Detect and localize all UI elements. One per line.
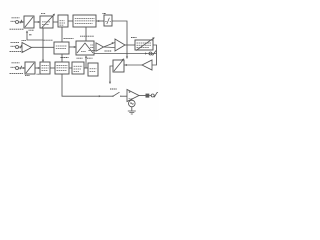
terminal out — [151, 94, 154, 97]
wire A2 to G — [32, 46, 55, 48]
label MOD above T3 — [12, 62, 20, 64]
variable attenuator (box with arrow) — [113, 60, 124, 72]
label under G — [61, 57, 69, 59]
text bars inside blocks — [42, 18, 152, 71]
label above switch — [110, 88, 117, 90]
numeral near L-wire — [29, 34, 32, 36]
wire AC source to ground — [131, 107, 133, 111]
label right of D vertical — [80, 35, 94, 37]
tiny illegible labels as bars — [10, 14, 137, 90]
block L — [88, 63, 98, 76]
box K content — [74, 66, 83, 71]
wire E right then down — [112, 21, 127, 59]
wire B to C — [53, 21, 58, 23]
wire T1 to filter — [19, 20, 25, 24]
wire A4 to variable attenuator — [124, 64, 142, 66]
label right of C vertical — [64, 37, 74, 39]
wire J to K — [69, 67, 72, 69]
wire C to D — [68, 20, 73, 22]
label (GHz) below T1 — [10, 28, 25, 30]
wire I to J — [50, 67, 55, 69]
bottom long wire — [62, 74, 113, 96]
AGC block F — [135, 40, 153, 50]
wire K to L with tap — [84, 67, 88, 69]
op-amp U2 — [127, 90, 139, 102]
terminal on H1 — [149, 52, 152, 55]
numeral above box B — [41, 13, 45, 15]
numeral under box H — [37, 73, 41, 75]
box D text rows — [75, 18, 95, 23]
label f1 near H1 — [105, 50, 112, 52]
mixer C — [58, 15, 68, 27]
glyph f/2 in box E — [105, 18, 111, 24]
block J — [55, 62, 69, 74]
right vertical to buffer — [152, 53, 157, 65]
amplifier A3 — [96, 43, 104, 51]
L wire to F1 bottom — [27, 31, 43, 40]
label left of box G — [44, 39, 54, 41]
terminal T2 — [16, 46, 19, 49]
divider E — [104, 15, 112, 26]
filter H — [25, 62, 35, 74]
vertical C down to G — [61, 27, 63, 42]
box G text rows — [56, 46, 67, 49]
wire G to ramp — [69, 46, 76, 48]
variable amplifier B (box with arrow) — [40, 16, 53, 28]
block K — [72, 62, 84, 74]
U2 output — [139, 95, 146, 97]
numeral above box E — [103, 13, 107, 15]
label f2 under ramp — [87, 57, 93, 59]
wire A3 to opamp lower — [104, 46, 115, 49]
numeral under box H left — [25, 75, 30, 77]
label fo near H1 — [89, 50, 97, 52]
wire A3 to opamp upper — [104, 43, 115, 47]
wire F right down — [153, 45, 157, 53]
ground — [128, 111, 136, 114]
wire F1 to amp box — [34, 21, 40, 23]
wire U2 to AC source — [131, 98, 133, 100]
ramp box inner text — [81, 51, 86, 53]
wire attenuator down to switch — [110, 66, 113, 84]
terminal T1 — [16, 21, 19, 24]
box C glyph — [60, 21, 66, 25]
terminal T3 — [16, 67, 19, 70]
amplifier A2 — [22, 43, 32, 53]
wide block D — [73, 15, 96, 27]
long wire H1 — [94, 53, 157, 55]
numeral left of box F — [131, 37, 137, 39]
block I — [40, 62, 50, 74]
numeral under box A — [29, 29, 35, 31]
input stub T3 — [11, 66, 15, 68]
box B text rows — [42, 22, 50, 25]
switch — [113, 92, 120, 96]
synthesizer G — [54, 42, 69, 54]
label (MHz) below T2 — [10, 51, 25, 53]
wire T2 to amp — [19, 45, 23, 49]
label REF above T2 — [11, 42, 20, 44]
vertical B down to I — [42, 28, 44, 62]
wire U1 out — [125, 44, 135, 46]
vertical D down to ramp box — [85, 27, 87, 41]
AC source — [129, 100, 136, 107]
box I text rows — [42, 66, 49, 71]
wire T3 to H — [19, 66, 26, 70]
input stub T1 — [11, 20, 15, 22]
ramp generator (box with triangle) — [76, 41, 94, 55]
buffer A4 (points left) — [142, 60, 152, 70]
box F text rows — [137, 43, 152, 48]
box J text rows — [57, 65, 68, 70]
numeral above amp A2 — [22, 40, 27, 42]
wire E to D (arrow left) — [96, 20, 104, 22]
vertical tap up to ramp box — [85, 56, 87, 68]
wire H to I — [35, 67, 40, 69]
label ANT above T1 — [12, 17, 20, 19]
box L content — [90, 69, 97, 72]
ramp box right rows — [90, 45, 93, 47]
vertical G to J — [61, 54, 63, 62]
label (MHz) below T3 — [10, 72, 24, 74]
op-amp U1 — [115, 39, 125, 51]
input stub T2 — [11, 45, 15, 47]
filter F1 (box with diagonal) — [24, 16, 34, 28]
label f1 under ramp — [77, 57, 83, 59]
